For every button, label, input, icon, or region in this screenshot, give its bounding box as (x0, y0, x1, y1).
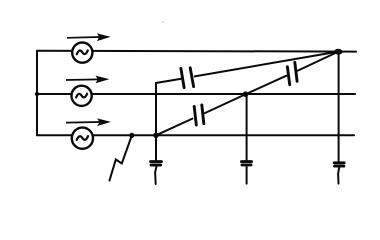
wire stub below C6 (338, 168, 339, 184)
wire diagonal D1 right segment (C1 to top-right node) (195, 52, 339, 77)
wire stub below C5 (246, 166, 248, 183)
ac source V3 (72, 128, 93, 149)
wire diagonal D2 upper-middle segment (node to C3) (245, 76, 286, 95)
node bottom bus at x=156 (153, 133, 159, 139)
capacitor C3 (287, 62, 297, 84)
wire diagonal D2 top segment (C3 to top-right node) (298, 52, 339, 71)
wire vertical branch at x=156 (top corner to bottom bus) (155, 83, 157, 135)
capacitor C5 (242, 162, 252, 165)
capacitor C4 (151, 162, 162, 165)
node middle bus at x=245 (243, 91, 249, 97)
arrow above V2 (66, 76, 108, 82)
capacitor C6 (334, 163, 344, 166)
wire vertical branch at x=338.6 (top bus junction down) (338, 52, 340, 162)
wire bottom phase bus (37, 134, 354, 136)
node fault point on bottom bus (129, 133, 134, 138)
arrow above V1 (67, 34, 109, 40)
wire diagonal D1 left segment (to C1) (156, 79, 182, 83)
ac source V1 (72, 43, 92, 63)
ac source V2 (72, 86, 92, 106)
lightning fault symbol on bottom bus (110, 136, 132, 181)
wire vertical branch at x=246.6 (middle bus junction down) (246, 94, 248, 160)
wire top phase bus (37, 50, 356, 53)
wire stub below C4 (155, 167, 156, 184)
wire middle phase bus (37, 93, 355, 95)
wire left vertical return (36, 51, 38, 135)
wire diagonal D2 middle segment (C2 to middle-bus node) (205, 95, 245, 114)
arrow above V3 (66, 119, 110, 125)
wire diagonal D2 lower segment (bottom bus to C2) (156, 119, 192, 136)
node on left vertical at middle bus (35, 92, 39, 96)
wire lead of capacitor C4 (below bottom bus) (155, 135, 157, 160)
capacitor C2 (194, 105, 204, 125)
capacitor C1 (181, 68, 194, 88)
node top bus at x=338.6 (334, 49, 342, 55)
scan speck (162, 21, 164, 23)
